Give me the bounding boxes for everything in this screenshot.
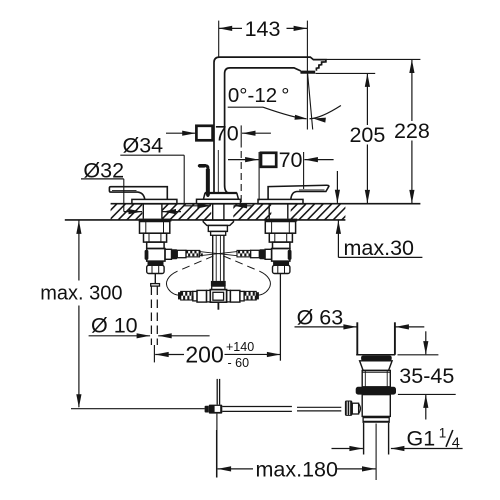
svg-text:0°-12: 0°-12 bbox=[228, 84, 277, 107]
svg-text:max. 300: max. 300 bbox=[40, 282, 122, 304]
svg-text:4: 4 bbox=[452, 436, 460, 452]
svg-text:- 60: - 60 bbox=[228, 356, 250, 370]
svg-text:Ø34: Ø34 bbox=[123, 134, 164, 158]
svg-text:max.180: max.180 bbox=[256, 457, 339, 481]
svg-text:200: 200 bbox=[185, 341, 223, 367]
svg-text:143: 143 bbox=[245, 17, 281, 41]
svg-text:1: 1 bbox=[439, 425, 447, 440]
svg-text:max.30: max.30 bbox=[344, 236, 415, 260]
svg-text:°: ° bbox=[281, 84, 289, 107]
svg-text:+140: +140 bbox=[226, 340, 254, 354]
svg-text:70: 70 bbox=[215, 122, 239, 146]
svg-text:G1: G1 bbox=[407, 427, 436, 451]
svg-text:228: 228 bbox=[394, 119, 430, 143]
svg-text:Ø 63: Ø 63 bbox=[297, 305, 344, 329]
svg-text:70: 70 bbox=[279, 148, 303, 172]
svg-text:205: 205 bbox=[349, 123, 385, 147]
svg-text:35-45: 35-45 bbox=[399, 364, 454, 388]
svg-text:Ø 10: Ø 10 bbox=[91, 313, 138, 337]
